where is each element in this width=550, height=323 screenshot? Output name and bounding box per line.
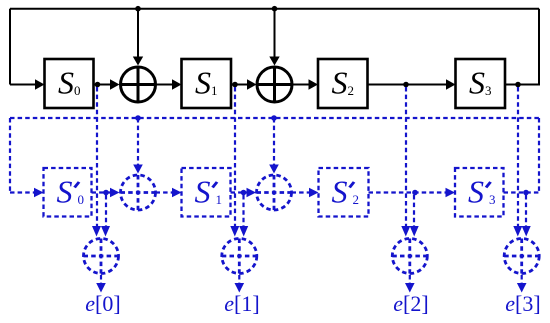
junction: S1 output node — [232, 82, 238, 88]
wire: S2 output to S3 — [368, 84, 447, 86]
svg-text:e[1]: e[1] — [224, 291, 259, 316]
wire: XOR2' output to S'2 — [292, 191, 310, 193]
xor gate XOR1' — [121, 175, 156, 210]
svg-text:S: S — [332, 174, 348, 210]
wire: S'3 tap down to comparator XC3 — [525, 195, 527, 226]
wire: S1 tap down to comparator XC1 — [234, 87, 236, 226]
register S1 — [182, 59, 232, 108]
wire: shadow feedback top bus — [10, 117, 539, 119]
junction: S2 output node — [403, 82, 409, 88]
xor gate XC3 (comparator) — [504, 239, 539, 274]
wire: XC2 output to e[2] — [409, 275, 411, 283]
junction: S'0 output node — [103, 190, 109, 196]
junction: bus to XOR2' — [271, 115, 277, 121]
junction: S0 output node — [95, 82, 101, 88]
wire: XOR2 output to S2 — [292, 84, 309, 86]
register S'1 — [182, 168, 231, 217]
junction: S3 output tap node — [515, 82, 521, 88]
junction: top rail to XOR2 — [272, 6, 278, 12]
wire: left feedback drop — [9, 9, 11, 85]
wire: top feedback rail — [10, 8, 539, 10]
svg-text:S: S — [468, 174, 484, 210]
wire: XOR1' output to S'1 — [156, 191, 173, 193]
junction: S'1 output node — [241, 190, 247, 196]
wire: XC0 output to e[0] — [100, 275, 102, 283]
svg-text:e[0]: e[0] — [85, 291, 120, 316]
junction: bus to XOR1' — [135, 115, 141, 121]
wire: S3 tap down to comparator XC3 — [517, 87, 519, 226]
xor gate XOR2' — [257, 175, 292, 210]
wire: S'2 tap down to comparator XC2 — [413, 195, 415, 226]
wire: top rail drop into XOR1 — [137, 9, 139, 57]
svg-text:3: 3 — [489, 192, 496, 207]
wire: XC3 output to e[3] — [521, 275, 523, 283]
wire: S'0 tap down to comparator XC0 — [105, 195, 107, 226]
svg-text:2: 2 — [353, 192, 360, 207]
wire: bus drop into XOR2' — [273, 118, 275, 165]
wire: XC1 output to e[1] — [238, 275, 240, 283]
wire: shadow feedback into S'0 — [10, 191, 35, 193]
svg-text:1: 1 — [216, 192, 223, 207]
wire: feedback from S3 output to top rail — [505, 9, 539, 85]
wire: S'2 output to S'3 — [369, 191, 447, 193]
junction: S'3 output tap node — [523, 190, 529, 196]
wire: S2 tap down to comparator XC2 — [405, 87, 407, 226]
xor gate XC2 (comparator) — [392, 239, 427, 274]
wire: S'1 tap down to comparator XC1 — [242, 195, 244, 226]
register S'2 — [319, 168, 369, 217]
wire: XOR1 output to S1 — [156, 84, 173, 86]
svg-text:0: 0 — [78, 192, 85, 207]
register S'3 — [455, 168, 504, 217]
wire: shadow feedback bus right drop — [538, 118, 540, 193]
svg-text:e[3]: e[3] — [505, 291, 540, 316]
junction: S'2 output node — [412, 190, 418, 196]
wire: S'1 output to XOR2' — [231, 191, 248, 193]
wire: S'0 output to XOR1' — [92, 191, 112, 193]
register S2 — [318, 59, 368, 108]
register S0 — [45, 59, 94, 108]
xor gate XOR1 — [121, 67, 156, 102]
wire: feedback into S0 — [10, 84, 36, 86]
junction: top rail to XOR1 — [135, 6, 141, 12]
xor gate XC0 (comparator) — [84, 239, 119, 274]
xor gate XC1 (comparator) — [222, 239, 257, 274]
wire: S0 output to XOR1 — [94, 84, 111, 86]
wire: shadow feedback bus left drop — [9, 118, 11, 193]
register S'0 — [44, 168, 92, 217]
wire: S1 output to XOR2 — [231, 84, 248, 86]
svg-text:e[2]: e[2] — [393, 291, 428, 316]
svg-text:S: S — [195, 174, 211, 210]
wire: S'3 output to bus corner — [504, 191, 540, 193]
xor gate XOR2 — [257, 67, 292, 102]
wire: bus drop into XOR1' — [137, 118, 139, 165]
wire: S0 tap down to comparator XC0 — [96, 87, 98, 226]
wire: top rail drop into XOR2 — [274, 9, 276, 57]
register S3 — [456, 59, 506, 108]
svg-text:S: S — [57, 174, 73, 210]
